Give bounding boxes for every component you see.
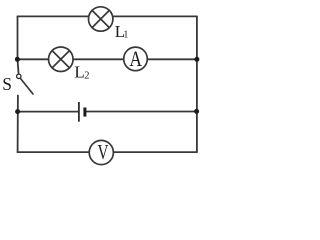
svg-text:2: 2 xyxy=(84,70,89,81)
svg-text:V: V xyxy=(97,141,108,164)
wire right vertical xyxy=(196,16,198,152)
node junction row2 left xyxy=(15,57,20,62)
switch S pivot xyxy=(17,74,21,78)
wire battery row left segment xyxy=(18,111,79,113)
svg-text:A: A xyxy=(129,47,142,72)
node junction row2 right xyxy=(194,57,199,62)
wire second row L2/A branch xyxy=(17,58,197,60)
svg-text:S: S xyxy=(2,74,12,94)
battery cell: short thick negative plate xyxy=(83,108,86,117)
node junction battery row left xyxy=(15,109,20,114)
wire left vertical lower (switch contact to bottom corner) xyxy=(17,96,19,153)
node junction battery row right xyxy=(194,109,199,114)
ammeter A xyxy=(124,47,148,72)
wire bottom row xyxy=(18,151,197,153)
svg-text:1: 1 xyxy=(123,30,128,41)
lamp L2 xyxy=(49,47,74,72)
wire left node to switch pivot xyxy=(18,59,19,74)
switch S blade xyxy=(21,79,33,94)
voltmeter V xyxy=(89,140,113,164)
wire battery row right segment xyxy=(86,111,197,113)
lamp L1 xyxy=(89,7,113,31)
battery cell: long positive plate xyxy=(78,102,80,122)
wire top: left corner to right corner xyxy=(18,15,197,17)
wire left vertical upper (top corner to row2 node) xyxy=(17,16,19,59)
